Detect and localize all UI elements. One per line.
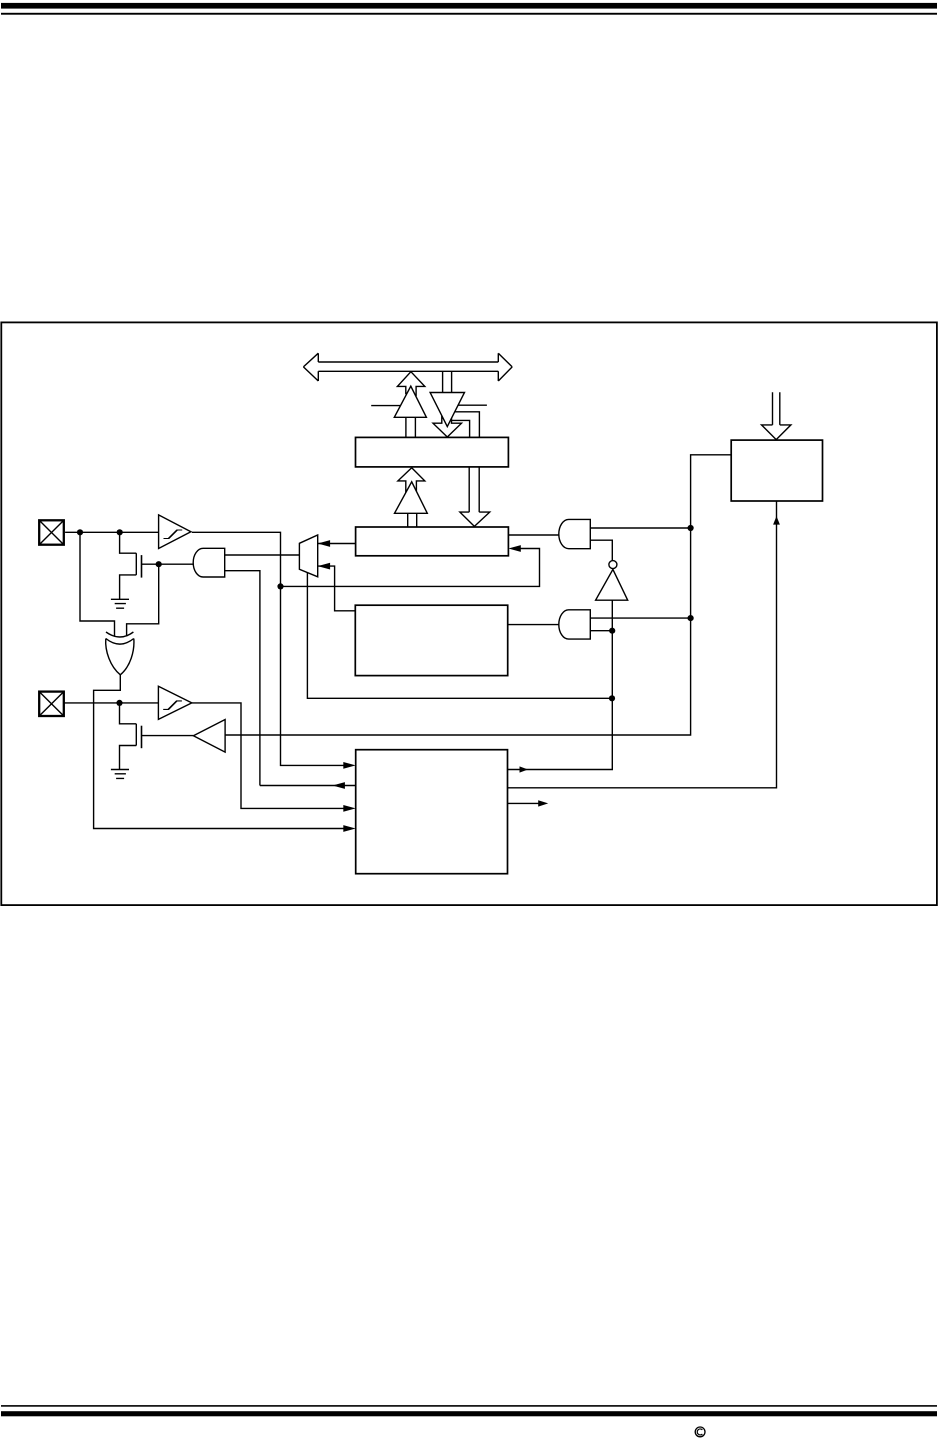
arrow into block D (pin: pad2 value in): [343, 805, 355, 812]
node: pad P1 branch: [77, 529, 83, 535]
wire: schmitt U5 output to control block D: [192, 703, 349, 809]
wire: schmitt U4 output down to control block D: [192, 532, 349, 765]
arrow on enable line (pointing left): [333, 782, 345, 789]
wire: G1 output to register B: [508, 534, 558, 536]
and gate G3 (mirrored, output left to Q1 gate): [193, 548, 224, 577]
wire: G3 input 2 from block D enable line: [225, 571, 260, 786]
arrow into register B right edge: [508, 545, 520, 552]
mux M1 (output left): [299, 535, 317, 577]
control unit block D: [356, 750, 508, 874]
arrow on block D output (direction right): [520, 766, 529, 772]
wire: G1 input 1: [590, 527, 690, 529]
write driver U2: double-line shaft from bus: [443, 371, 452, 392]
read driver U1: double-line shaft to register A: [406, 417, 416, 437]
wire: block D output stub with arrow: [508, 802, 542, 804]
read driver U1: hollow arrowhead into bus: [397, 372, 424, 396]
wire: G2 input 1: [590, 617, 690, 619]
wire: pad P2 to schmitt trigger U5: [64, 702, 158, 704]
xor gate G4 (pointing down): [106, 632, 134, 675]
wire: G2 output to register C: [508, 624, 559, 626]
pad P1: [39, 520, 64, 544]
node: mosfet Q1 drain branch: [117, 529, 123, 535]
schmitt trigger U5: [158, 686, 191, 719]
read driver U3: double-line shaft from register B: [408, 513, 417, 527]
header rule thick: [1, 3, 937, 9]
ground 1: [111, 599, 129, 608]
register B: [356, 527, 509, 556]
read driver U3: hollow arrowhead into register A bottom: [398, 468, 425, 493]
register A: [356, 437, 509, 467]
write branch channel into register A (bent double line): [450, 412, 479, 438]
pad P2: [39, 692, 64, 716]
write driver U2: tri-state buffer triangle (down): [430, 393, 464, 427]
header rule thin: [1, 13, 937, 15]
arrow into mux input 1: [318, 540, 330, 547]
and gate G1 (mirrored, output left into register B): [559, 519, 590, 548]
write channel register A to register B: [469, 467, 479, 512]
footer rule thick: [1, 1411, 937, 1416]
read driver U1: enable stub: [371, 405, 400, 407]
wire: G1 input 2 from inverter U7: [590, 540, 612, 560]
schmitt hysteresis glyph: [164, 530, 183, 539]
wire: XOR input 1 from pad P1 node: [80, 532, 115, 636]
clock prescaler block E: [731, 440, 822, 501]
read driver U1: tri-state buffer triangle (up): [394, 386, 426, 417]
wire: mux input 2 from register C: [318, 566, 356, 611]
transistor Q1 (open drain pulldown): [120, 532, 194, 599]
node: x612 net to G2 input 2: [609, 628, 615, 634]
wire: U7 input net x612 down to block D: [508, 600, 613, 769]
node: x690 net to G2 input: [688, 615, 694, 621]
wire: XOR input 2 from Q1 gate node: [127, 564, 159, 636]
read driver U3: buffer triangle (up): [395, 482, 428, 514]
wire: G2 input 2: [590, 630, 612, 632]
inverter U7 with bubble (pointing up): [609, 561, 617, 569]
and gate G2 (mirrored, output left into register C): [559, 610, 590, 639]
clock input double-line shaft: [773, 392, 780, 425]
arrow into block D (pin: pads XOR): [343, 825, 355, 832]
data bus double arrow: [303, 353, 512, 381]
wire: block D output left (enable to G3) with arrow: [260, 785, 356, 787]
node: Q1 gate branch to XOR: [156, 561, 162, 567]
node: x612 net to mux select: [609, 695, 615, 701]
wire: pad P1 to schmitt trigger input: [65, 531, 159, 533]
wire: U6 input from x690 net: [225, 455, 731, 735]
arrow into mux input 2: [318, 563, 330, 570]
node: schmitt line to feedback: [277, 583, 283, 589]
node: Q2 drain branch: [116, 700, 122, 706]
wire: mux input 1 from register B: [318, 543, 356, 545]
clock input hollow arrowhead: [762, 425, 791, 440]
copyright symbol: [695, 1427, 705, 1437]
wire: G3 input 1 from mux output: [225, 554, 300, 556]
wire: block D output to clock block E: [508, 501, 777, 788]
footer rule thin: [1, 1405, 937, 1407]
hollow arrowhead into register B: [460, 512, 490, 526]
arrow on stub (pointing right): [538, 800, 548, 806]
wire: mux select from node on x612 net: [307, 573, 612, 699]
transistor Q2 (open drain pulldown): [120, 703, 194, 770]
register C: [355, 605, 507, 675]
ground 2: [111, 770, 129, 779]
inverter U6 (pointing left, drives Q2 gate): [193, 720, 225, 753]
write driver U2: enable stub: [458, 404, 487, 406]
schmitt hysteresis glyph 2: [163, 701, 182, 710]
schmitt trigger U4: [159, 515, 191, 549]
node: x690 net to G1 input: [688, 525, 694, 531]
wire: feedback from schmitt line into register B: [281, 549, 540, 587]
figure frame: [1, 322, 937, 905]
wire: XOR output to control block D: [94, 675, 349, 829]
arrow up into block E: [773, 516, 780, 525]
arrow into block D (pin: pad value in): [343, 762, 355, 769]
write driver U2: hollow arrowhead into register A: [433, 416, 462, 437]
